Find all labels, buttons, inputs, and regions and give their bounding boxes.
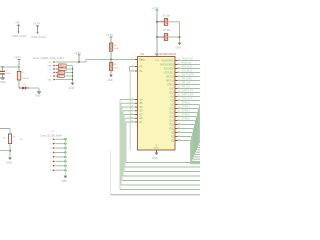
svg-text:SDA_BUS: SDA_BUS	[181, 66, 192, 69]
svg-text:GPIO5: GPIO5	[167, 84, 175, 86]
svg-text:GPIO19: GPIO19	[166, 76, 175, 78]
svg-text:SCL_BUS: SCL_BUS	[181, 71, 192, 73]
svg-text:+3.3V: +3.3V	[14, 55, 21, 59]
svg-text:IO14: IO14	[169, 120, 175, 122]
svg-text:PWR_FLAG: PWR_FLAG	[12, 34, 26, 38]
svg-text:R1 10k: R1 10k	[163, 15, 171, 17]
svg-text:IO15: IO15	[169, 108, 175, 110]
svg-text:SPI_MISO: SPI_MISO	[181, 79, 192, 81]
svg-text:IO17: IO17	[169, 88, 175, 90]
svg-text:RXD0_IN: RXD0_IN	[181, 63, 191, 65]
svg-text:D-: D-	[50, 73, 52, 75]
svg-text:GPIO16: GPIO16	[181, 119, 190, 121]
svg-text:500mA: 500mA	[22, 77, 29, 80]
svg-text:TOUCH_4: TOUCH_4	[181, 99, 192, 101]
svg-text:Conn_01x08_Male: Conn_01x08_Male	[40, 134, 62, 138]
svg-text:TXD0/GPIO1: TXD0/GPIO1	[161, 60, 175, 62]
svg-text:GND: GND	[0, 81, 6, 84]
svg-text:GND: GND	[69, 87, 75, 90]
svg-text:R2 10k: R2 10k	[163, 30, 171, 32]
svg-text:GPIO13: GPIO13	[181, 107, 190, 109]
svg-text:+5V: +5V	[19, 139, 23, 141]
svg-text:SPI_CS: SPI_CS	[181, 87, 190, 89]
svg-text:GPIO15: GPIO15	[181, 115, 190, 117]
svg-text:+3.3V: +3.3V	[151, 6, 158, 10]
svg-text:GND: GND	[152, 157, 158, 160]
svg-text:SPI_CLK: SPI_CLK	[181, 83, 191, 85]
svg-text:GPIO12: GPIO12	[181, 103, 190, 105]
svg-text:IC1: IC1	[140, 52, 145, 56]
svg-text:GPIO14: GPIO14	[181, 111, 190, 113]
svg-text:PWR_FLAG: PWR_FLAG	[32, 35, 46, 39]
svg-text:VN: VN	[139, 71, 143, 73]
svg-text:Fuse_2x@R_Fuse_1x@1: Fuse_2x@R_Fuse_1x@1	[33, 56, 65, 60]
svg-text:RXD0/GPIO3: RXD0/GPIO3	[160, 64, 175, 66]
svg-text:GND: GND	[62, 180, 68, 183]
svg-text:IO13: IO13	[169, 112, 175, 114]
svg-text:GND: GND	[107, 79, 113, 82]
svg-text:IO21/SDA: IO21/SDA	[164, 67, 175, 70]
svg-text:TXD0_OUT: TXD0_OUT	[181, 59, 194, 61]
svg-text:+3.3V: +3.3V	[33, 21, 40, 25]
svg-text:GND: GND	[175, 47, 181, 50]
svg-text:IO23: IO23	[169, 124, 175, 126]
svg-text:UART2_RX: UART2_RX	[181, 94, 193, 97]
svg-text:39: 39	[155, 145, 157, 147]
svg-text:GPIO18: GPIO18	[166, 80, 175, 82]
svg-text:RST: RST	[141, 59, 146, 61]
svg-text:IO12: IO12	[169, 116, 175, 118]
svg-text:IO22: IO22	[169, 128, 175, 130]
svg-text:BOOT_BTN: BOOT_BTN	[181, 75, 194, 77]
svg-text:IO16: IO16	[169, 92, 175, 94]
svg-text:ESP32-WROOM-32: ESP32-WROOM-32	[155, 53, 177, 56]
svg-text:+5V: +5V	[15, 21, 20, 25]
svg-text:2: 2	[132, 58, 133, 60]
svg-text:VP: VP	[139, 66, 143, 68]
svg-text:GND: GND	[35, 94, 41, 97]
svg-text:GND: GND	[154, 148, 159, 150]
svg-text:IO22/SCL: IO22/SCL	[164, 72, 175, 74]
svg-text:GND: GND	[47, 66, 52, 68]
svg-text:100u: 100u	[6, 73, 12, 75]
svg-text:GND: GND	[47, 80, 52, 82]
svg-text:GND: GND	[6, 161, 12, 164]
svg-text:UART2_TX: UART2_TX	[181, 90, 193, 93]
